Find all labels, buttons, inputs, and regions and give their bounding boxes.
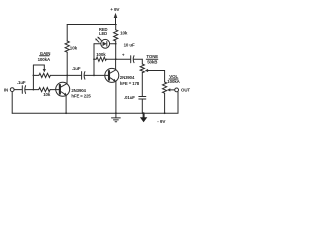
wire top +9V rail (67, 24, 116, 26)
node C4 at rail (142, 112, 144, 114)
svg-text:10k: 10k (43, 92, 51, 97)
capacitor C1 .1uF input (17, 80, 26, 93)
potentiometer VOL 100kA (163, 71, 175, 94)
svg-text:.1uF: .1uF (17, 80, 26, 85)
svg-text:OUT: OUT (181, 88, 190, 93)
svg-text:2N3904: 2N3904 (71, 88, 86, 93)
wire IN to C1 (14, 89, 21, 91)
wire R1 bottom to collector node (66, 52, 68, 75)
node 100k left tap (93, 58, 95, 60)
svg-text:2N3904: 2N3904 (120, 75, 135, 80)
capacitor C2 .1uF interstage (72, 66, 85, 79)
svg-text:.1uF: .1uF (72, 66, 81, 71)
wire TONE bottom to C4 (141, 73, 143, 97)
LED emission arrows (95, 37, 101, 43)
terminal OUT (175, 88, 179, 92)
wire R1 top lead (66, 25, 68, 42)
svg-text:50kB: 50kB (147, 59, 157, 64)
node base junction Q1 (33, 89, 35, 91)
svg-text:IN: IN (4, 88, 8, 93)
svg-text:100kA: 100kA (167, 79, 180, 84)
node C2/100k/base junction (93, 75, 95, 77)
node Q2 emitter at rail (115, 112, 117, 114)
wire IN terminal down (11, 92, 13, 114)
node VOL bottom at rail (164, 112, 166, 114)
label RED LED (99, 27, 108, 36)
svg-text:100kA: 100kA (38, 57, 51, 62)
svg-text:LED: LED (99, 31, 107, 36)
node LED right at R3 vertical (115, 43, 117, 45)
svg-text:+ 9V: + 9V (110, 7, 120, 12)
wire VOL bottom to rail (164, 93, 166, 113)
terminal IN (10, 88, 14, 92)
svg-text:hFE = 178: hFE = 178 (120, 81, 140, 86)
capacitor C3 10uF electrolytic (116, 42, 143, 62)
label TONE pot (146, 54, 158, 65)
wire Q1 collector up (66, 75, 68, 83)
svg-text:10k: 10k (120, 30, 128, 35)
wire C1 to base node (25, 89, 33, 91)
capacitor C4 .01uF (124, 95, 146, 113)
svg-text:100k: 100k (96, 52, 106, 57)
svg-text:hFE = 225: hFE = 225 (71, 94, 91, 99)
resistor R1 10k (Q1 collector load) (65, 41, 78, 52)
wire Q1 emitter down (65, 95, 67, 113)
wire R2 to Q1 base (50, 89, 60, 91)
svg-text:GAIN: GAIN (40, 51, 51, 56)
svg-text:- 9V: - 9V (157, 119, 166, 124)
ground symbol (112, 113, 121, 122)
node collector Q1 junction (66, 75, 68, 77)
resistor R2 10k (Q1 base) (33, 88, 50, 98)
wire Q2 emitter down (115, 81, 117, 113)
LED D1 (94, 39, 116, 48)
wire collector node to C2 (67, 74, 81, 76)
wire bottom rail (12, 92, 178, 113)
resistor R3 10k (Q2 collector load) (114, 25, 128, 60)
svg-text:.01uF: .01uF (124, 95, 135, 100)
potentiometer GAIN 100kA (33, 65, 50, 90)
node GAIN pot left tap (33, 75, 35, 77)
resistor R4 100k (feedback) (94, 52, 116, 62)
wire left branch vertical (93, 44, 95, 76)
transistor Q1 2N3904 (56, 82, 92, 98)
potentiometer TONE 50kB (140, 59, 164, 72)
label VOL pot (167, 74, 180, 84)
node Q1 emitter at rail (65, 112, 67, 114)
wire C2 to Q2 base (84, 74, 109, 76)
power +9V arrow (110, 7, 120, 24)
svg-text:10 uF: 10 uF (124, 42, 135, 47)
power -9V bold arrow (140, 113, 166, 124)
svg-text:10k: 10k (70, 45, 78, 50)
wire GAIN pot right end to collector node (50, 74, 67, 76)
svg-text:TONE: TONE (146, 54, 158, 59)
label GAIN pot (38, 51, 51, 62)
wire Q2 collector up (115, 59, 117, 70)
svg-text:+: + (122, 53, 125, 58)
node R3/C3/100k/collector junction (115, 58, 117, 60)
transistor Q2 2N3904 (105, 68, 140, 86)
